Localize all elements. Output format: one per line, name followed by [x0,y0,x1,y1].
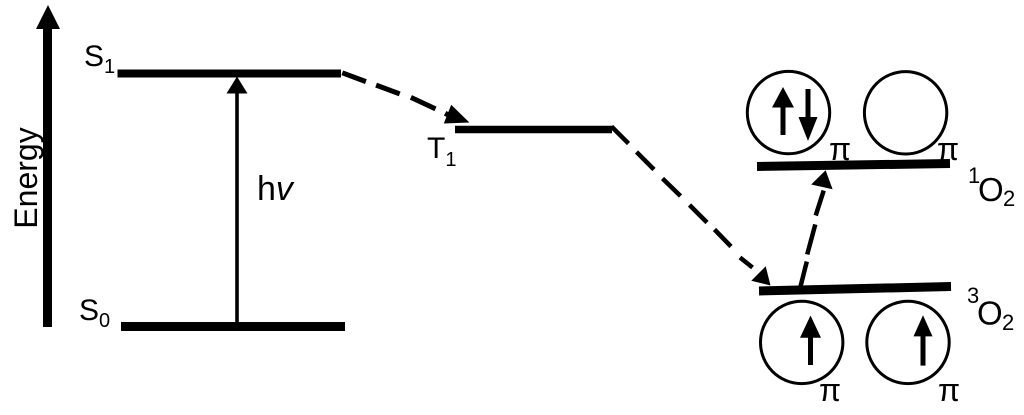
svg-text:2: 2 [1002,310,1014,335]
svg-text:O: O [977,295,1003,332]
level T1 [455,126,612,134]
spin-up arrow in lower-left circle [800,316,821,366]
excitation arrow hv [227,77,248,323]
level S1 [118,70,342,78]
svg-text:π: π [819,372,841,408]
svg-text:π: π [938,372,960,408]
svg-text:2: 2 [1003,186,1015,211]
orbital circle upper-left (paired electrons) [747,71,829,153]
svg-text:hv: hv [257,170,295,208]
orbital circle lower-left (single electron) [761,301,843,383]
level 3O2 ground state oxygen [759,287,951,292]
svg-text:O: O [978,171,1004,208]
svg-text:π: π [937,131,959,167]
energy axis arrow [36,5,60,327]
dashed arrow T1 to 3O2 (energy transfer) [612,127,771,286]
level 1O2 singlet oxygen [757,164,950,167]
spin-up arrow in upper-left circle [772,87,794,135]
spin-up arrow in lower-right circle [914,315,933,365]
svg-text:Energy: Energy [8,127,44,228]
orbital circle lower-right (single electron) [867,301,949,383]
level S0 [121,322,345,331]
svg-text:π: π [829,131,851,167]
dashed arrow 3O2 to 1O2 [801,170,833,286]
spin-down arrow in upper-left circle [799,89,818,141]
dashed arrow S1 to T1 (intersystem crossing) [342,73,469,124]
orbital circle upper-right (empty) [864,72,946,154]
